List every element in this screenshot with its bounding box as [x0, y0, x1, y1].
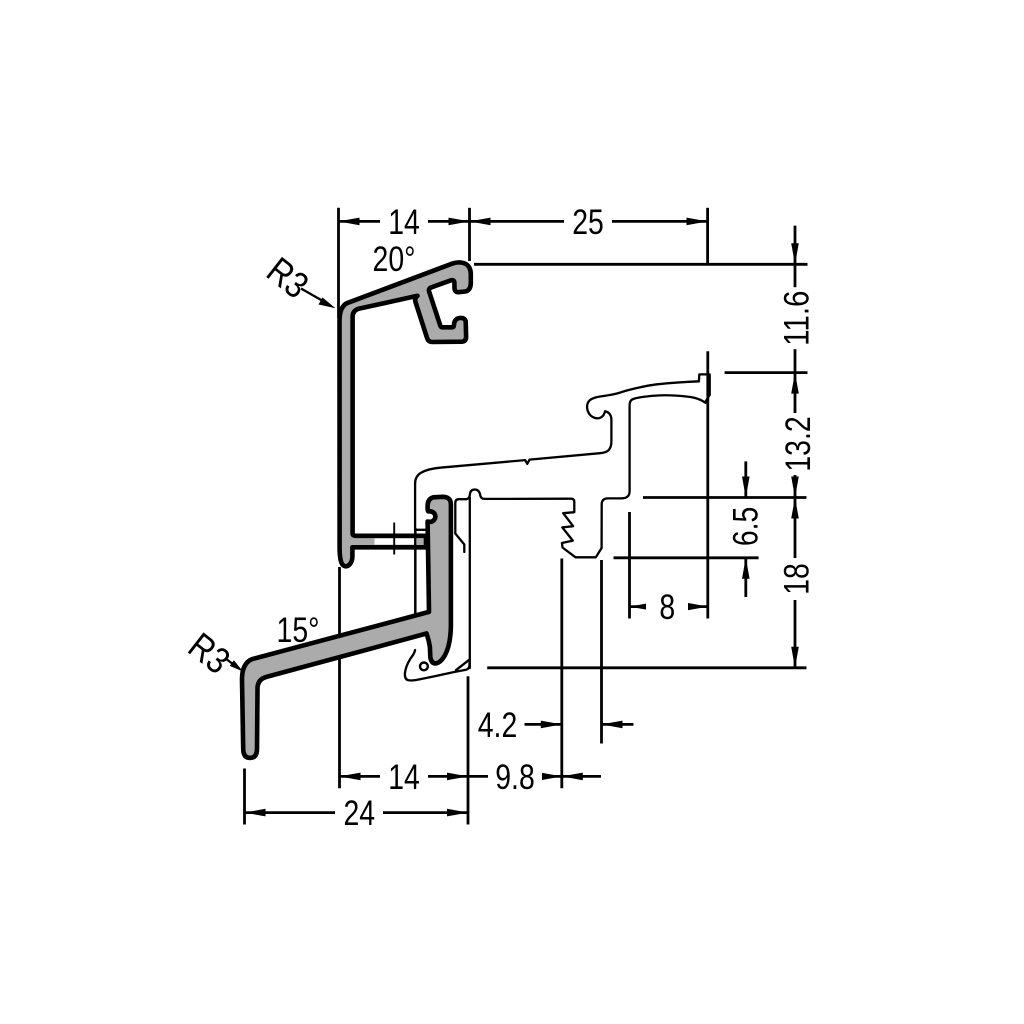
small circle in foot — [420, 663, 428, 671]
svg-text:24: 24 — [344, 793, 376, 833]
extension line V2 between 14 and 25 — [468, 208, 471, 261]
svg-text:11.6: 11.6 — [777, 291, 817, 346]
svg-text:4.2: 4.2 — [478, 705, 518, 745]
sash inner band line, deck wall, step, screw slot and serration — [455, 395, 705, 557]
arrowheads 9.8 — [541, 773, 562, 781]
white sash profile (thin lines) — [405, 374, 710, 680]
svg-text:13.2: 13.2 — [778, 416, 818, 471]
extension line V5 x468 — [467, 676, 470, 824]
svg-text:6.5: 6.5 — [725, 507, 765, 547]
long extension line x708 — [706, 351, 709, 618]
8 dimension line — [630, 605, 709, 608]
big channel left wall — [469, 498, 471, 669]
arrowheads top 14 — [339, 218, 360, 226]
arrowheads 8 — [630, 603, 651, 611]
svg-text:18: 18 — [776, 563, 816, 595]
svg-text:14: 14 — [388, 202, 420, 242]
bottom dimension line 24 — [245, 811, 469, 814]
svg-text:9.8: 9.8 — [495, 757, 535, 797]
6.5 dimension arrow tails — [744, 461, 747, 497]
extension line V1 left of top 14 — [337, 208, 340, 318]
svg-text:15°: 15° — [277, 610, 320, 650]
bottom dimension line 4.2 — [525, 723, 562, 726]
svg-text:25: 25 — [572, 202, 604, 242]
foot chamfer diagonal — [456, 659, 470, 670]
leader lines R3 — [226, 289, 336, 672]
extension line V6 x561.8 — [560, 559, 563, 789]
extension line H1 from profile tip — [474, 263, 808, 266]
bottom dimension line 14 / 9.8 — [340, 775, 602, 778]
svg-text:20°: 20° — [373, 239, 416, 279]
arrowheads 4.2 — [541, 721, 562, 729]
arrowheads 24 — [245, 809, 266, 817]
gray aluminium profile assembly — [242, 262, 471, 758]
extension line x339.5 bottom — [338, 567, 341, 788]
sash top band outer edge with nose cup and long slope — [415, 381, 699, 530]
sash left wall lower and foot — [405, 650, 470, 681]
right dimension chain vertical line — [794, 226, 797, 668]
sash left wall segment in front of thermal strip — [414, 528, 417, 614]
extension line H4 slot mouth — [614, 556, 759, 559]
extension line H2 flag top — [725, 371, 808, 374]
R3 top leader — [301, 289, 329, 305]
extension line H3 step face — [643, 496, 807, 499]
arrowheads bottom 14 — [340, 773, 361, 781]
dimension line 14 top — [339, 220, 470, 223]
svg-text:14: 14 — [388, 757, 420, 797]
extension line V7 x601.5 — [600, 560, 603, 744]
extension line V3 right of 25 — [706, 208, 709, 265]
dimension texts — [181, 202, 818, 833]
white backgrounds — [380, 206, 428, 237]
dimension line 25 top — [470, 220, 708, 223]
arrowheads 6.5 — [742, 477, 750, 498]
profile piece 2: hook bar with 15 deg arm and bottom foot — [242, 497, 451, 758]
profile piece 1: top rail with C-channel, left bar, foot and thermal strip — [340, 262, 471, 566]
extension line V4 bottom left — [243, 769, 246, 825]
thermal break slot white — [375, 538, 418, 544]
arrowheads right chain — [791, 243, 799, 264]
extension line H5 profile bottom — [487, 666, 806, 669]
arrowheads top 25 — [470, 218, 491, 226]
pocket floor lines — [416, 527, 430, 530]
R3 bottom leader — [226, 659, 234, 665]
extension line for 8 left — [628, 512, 631, 619]
joint mark — [393, 523, 395, 555]
svg-text:8: 8 — [659, 587, 675, 627]
sash flag — [699, 374, 710, 402]
